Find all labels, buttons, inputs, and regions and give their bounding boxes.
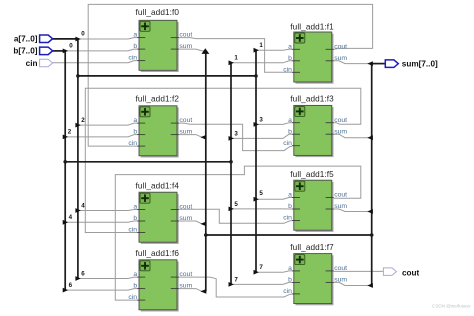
wire a[2] tap to f2.a xyxy=(78,123,137,125)
wire a[0] tap to f0.a xyxy=(78,38,137,39)
svg-text:cout: cout xyxy=(334,265,347,272)
svg-text:cin: cin xyxy=(128,140,137,147)
svg-text:a: a xyxy=(288,43,292,50)
svg-text:sum: sum xyxy=(334,277,347,284)
svg-text:sum: sum xyxy=(179,129,192,136)
svg-text:sum[7..0]: sum[7..0] xyxy=(402,59,438,68)
full-adder block U f5 (full_add1:f5) xyxy=(283,170,347,232)
svg-text:b: b xyxy=(133,129,137,136)
svg-text:0: 0 xyxy=(69,43,73,50)
svg-text:6: 6 xyxy=(81,270,85,277)
svg-text:cin: cin xyxy=(283,215,292,222)
bus b[7..0] from port xyxy=(52,50,65,52)
bus b[7..0] left vertical xyxy=(64,51,66,290)
watermark xyxy=(432,304,471,309)
wire f4.cout to f5.cin xyxy=(179,209,292,223)
svg-text:7: 7 xyxy=(259,264,263,271)
svg-text:b: b xyxy=(288,128,292,135)
bus a[7..0] left vertical xyxy=(77,39,79,279)
wire f6.sum to sum bus xyxy=(179,289,206,292)
svg-text:full_add1:f7: full_add1:f7 xyxy=(290,243,334,252)
bus b[7..0] right vertical xyxy=(230,63,232,285)
input port a[7..0] xyxy=(14,35,53,44)
svg-text:b: b xyxy=(133,283,137,290)
full-adder block U f2 (full_add1:f2) xyxy=(128,94,192,157)
wire a[7] tap to f7.a xyxy=(256,271,292,272)
output port cout xyxy=(383,268,419,278)
wire f2.sum to sum bus xyxy=(179,135,206,138)
svg-text:a: a xyxy=(133,204,137,211)
wire f4.sum to sum bus xyxy=(179,221,206,224)
svg-text:cout: cout xyxy=(179,204,192,211)
wire b[6] tap to f6.b xyxy=(65,289,137,291)
bus junction dots xyxy=(63,74,373,237)
svg-text:b: b xyxy=(133,215,137,222)
svg-text:cout: cout xyxy=(334,43,347,50)
svg-text:a: a xyxy=(133,271,137,278)
bus sum[7..0] right vertical xyxy=(371,64,373,286)
sum join arrowheads xyxy=(200,61,373,294)
wire b[3] tap to f3.b xyxy=(231,134,292,138)
wire f1.cout to f2.cin (around top) xyxy=(88,4,372,146)
wire f5.cout to f6.cin (around left) xyxy=(115,166,360,300)
svg-text:2: 2 xyxy=(81,117,85,124)
svg-text:CSDN @weifutaos: CSDN @weifutaos xyxy=(432,304,471,309)
svg-text:cout: cout xyxy=(179,271,192,278)
svg-text:cout: cout xyxy=(179,32,192,39)
svg-text:full_add1:f5: full_add1:f5 xyxy=(290,170,334,179)
wire b[7] tap to f7.b xyxy=(231,282,292,284)
wire b[1] tap to f1.b xyxy=(231,61,292,63)
wire a[3] tap to f3.a xyxy=(256,123,292,125)
input port cin xyxy=(26,59,53,68)
svg-text:cout: cout xyxy=(334,192,347,199)
svg-text:2: 2 xyxy=(68,129,72,136)
svg-text:b: b xyxy=(133,43,137,50)
svg-text:sum: sum xyxy=(179,283,192,290)
svg-text:4: 4 xyxy=(69,214,73,221)
wire a[4] tap to f4.a xyxy=(78,210,137,211)
svg-text:cout: cout xyxy=(334,117,347,124)
svg-text:5: 5 xyxy=(234,201,238,208)
svg-text:a: a xyxy=(288,192,292,199)
bus b[7..0] horizontal branch xyxy=(65,161,231,163)
svg-text:cin: cin xyxy=(26,59,38,68)
bus sum[7..0] to port xyxy=(372,63,386,65)
full-adder block U f6 (full_add1:f6) xyxy=(128,249,192,312)
svg-text:a: a xyxy=(288,265,292,272)
wire cin to f0.cin xyxy=(53,61,138,63)
output port sum[7..0] xyxy=(385,59,438,68)
svg-text:sum: sum xyxy=(334,128,347,135)
bus a[7..0] from port xyxy=(52,38,78,40)
svg-text:7: 7 xyxy=(234,276,238,283)
bus tap arrowheads xyxy=(63,37,259,293)
wire f3.sum to sum bus xyxy=(334,134,372,138)
bus a[7..0] right vertical xyxy=(255,50,257,272)
svg-text:full_add1:f1: full_add1:f1 xyxy=(290,23,334,32)
bus sum[7..0] horizontal branch xyxy=(206,234,372,236)
svg-text:a: a xyxy=(288,117,292,124)
full-adder block U f0 (full_add1:f0) xyxy=(128,8,192,72)
wire b[2] tap to f2.b xyxy=(65,135,137,137)
wire f1.sum to sum bus xyxy=(334,61,372,64)
svg-text:cin: cin xyxy=(283,66,292,73)
svg-text:sum: sum xyxy=(179,43,192,50)
svg-text:b[7..0]: b[7..0] xyxy=(13,47,37,56)
svg-text:a: a xyxy=(133,117,137,124)
svg-text:b: b xyxy=(288,277,292,284)
full-adder block U f3 (full_add1:f3) xyxy=(283,95,347,158)
wire f0.cout to f1.cin xyxy=(179,38,292,73)
svg-text:cout: cout xyxy=(179,117,192,124)
wire f3.cout to f4.cin (around left) xyxy=(85,88,361,232)
wire f7.sum to sum bus xyxy=(334,282,372,285)
svg-text:full_add1:f4: full_add1:f4 xyxy=(136,182,180,191)
svg-text:cin: cin xyxy=(128,227,137,234)
wire f6.cout to f7.cin xyxy=(179,277,292,297)
svg-text:b: b xyxy=(288,55,292,62)
wire b[4] tap to f4.b xyxy=(65,221,137,222)
svg-text:3: 3 xyxy=(259,116,263,123)
wire a[6] tap to f6.a xyxy=(78,277,137,278)
sum bus start arrowhead (f0.sum) xyxy=(202,48,210,54)
wire a[1] tap to f1.a xyxy=(256,48,292,51)
input port b[7..0] xyxy=(13,47,52,56)
full-adder block U f4 (full_add1:f4) xyxy=(128,182,192,244)
svg-text:sum: sum xyxy=(334,55,347,62)
bus bit index labels xyxy=(68,31,264,289)
svg-text:cin: cin xyxy=(283,288,292,295)
wire a[5] tap to f5.a xyxy=(256,198,292,200)
wire b[0] tap to f0.b xyxy=(65,49,137,51)
svg-text:full_add1:f6: full_add1:f6 xyxy=(136,249,180,258)
svg-text:5: 5 xyxy=(259,190,263,197)
svg-text:3: 3 xyxy=(234,130,238,137)
bus sum[7..0] left vertical xyxy=(205,51,207,292)
svg-text:cout: cout xyxy=(402,268,420,277)
svg-text:a[7..0]: a[7..0] xyxy=(14,35,38,44)
svg-text:cin: cin xyxy=(128,294,137,301)
svg-text:a: a xyxy=(133,32,137,39)
full-adder block U f7 (full_add1:f7) xyxy=(283,243,347,305)
svg-text:full_add1:f3: full_add1:f3 xyxy=(290,95,334,104)
full-adder block U f1 (full_add1:f1) xyxy=(283,23,347,84)
wire f2.cout to f3.cin xyxy=(179,123,292,151)
wire f7.cout to cout port xyxy=(334,270,384,272)
wire f5.sum to sum bus xyxy=(334,209,372,212)
svg-text:1: 1 xyxy=(234,55,238,62)
svg-text:6: 6 xyxy=(69,282,73,289)
bus a[7..0] horizontal branch xyxy=(78,75,256,77)
svg-text:cin: cin xyxy=(128,55,137,62)
svg-text:sum: sum xyxy=(334,203,347,210)
svg-text:4: 4 xyxy=(81,203,85,210)
svg-text:sum: sum xyxy=(179,215,192,222)
svg-text:0: 0 xyxy=(81,31,85,38)
wire f0.sum to sum bus xyxy=(179,49,206,51)
wire b[5] tap to f5.b xyxy=(231,208,292,210)
svg-text:cin: cin xyxy=(283,140,292,147)
svg-text:1: 1 xyxy=(259,42,263,49)
svg-text:b: b xyxy=(288,203,292,210)
svg-text:full_add1:f0: full_add1:f0 xyxy=(136,8,180,17)
svg-text:full_add1:f2: full_add1:f2 xyxy=(136,94,180,103)
